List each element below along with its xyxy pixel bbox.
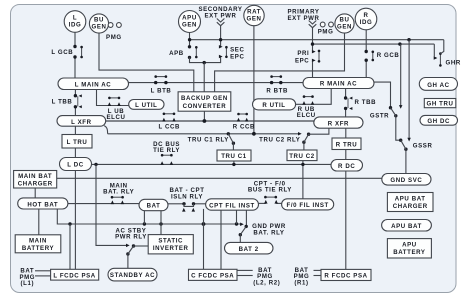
svg-text:F/0 FIL INST: F/0 FIL INST xyxy=(287,202,329,209)
svg-text:(L2, R2): (L2, R2) xyxy=(253,280,280,287)
svg-text:MAIN BAT: MAIN BAT xyxy=(18,173,52,180)
svg-text:R CCB: R CCB xyxy=(233,124,255,131)
svg-text:R MAIN AC: R MAIN AC xyxy=(320,81,357,88)
svg-text:APB: APB xyxy=(169,50,184,57)
svg-text:APU BAT: APU BAT xyxy=(391,223,422,230)
svg-text:R FCDC PSA: R FCDC PSA xyxy=(324,273,367,280)
svg-text:GEN: GEN xyxy=(91,24,106,31)
svg-text:BAT. RLY: BAT. RLY xyxy=(253,229,284,236)
svg-text:TRU C2: TRU C2 xyxy=(289,153,315,160)
svg-text:APU BAT: APU BAT xyxy=(395,195,426,202)
svg-text:CONVERTER: CONVERTER xyxy=(183,103,227,110)
svg-text:R TBB: R TBB xyxy=(354,99,376,106)
svg-text:GH AC: GH AC xyxy=(427,82,449,89)
svg-text:(R1): (R1) xyxy=(294,280,308,287)
svg-text:L TRU: L TRU xyxy=(67,139,88,146)
svg-text:TIE RLY: TIE RLY xyxy=(153,147,180,154)
svg-text:ISLN RLY: ISLN RLY xyxy=(171,193,203,200)
svg-text:INVERTER: INVERTER xyxy=(153,245,189,252)
svg-text:R XFR: R XFR xyxy=(328,120,349,127)
svg-text:EXT PWR: EXT PWR xyxy=(288,15,320,22)
svg-text:R TRU: R TRU xyxy=(336,142,358,149)
svg-text:BAT: BAT xyxy=(147,203,161,210)
svg-text:R DC: R DC xyxy=(338,163,355,170)
svg-text:MAIN: MAIN xyxy=(29,237,47,244)
svg-text:PWR RLY: PWR RLY xyxy=(115,234,147,241)
svg-text:BACKUP GEN: BACKUP GEN xyxy=(181,95,228,102)
svg-text:L CCB: L CCB xyxy=(158,124,180,131)
svg-text:R BTB: R BTB xyxy=(266,87,288,94)
svg-text:BATTERY: BATTERY xyxy=(22,245,54,252)
svg-text:PRI: PRI xyxy=(297,50,309,57)
svg-text:STANDBY AC: STANDBY AC xyxy=(110,272,155,279)
svg-text:PMG: PMG xyxy=(106,34,122,41)
svg-text:TRU C2 RLY: TRU C2 RLY xyxy=(259,136,300,143)
svg-text:GSTR: GSTR xyxy=(370,113,389,120)
svg-text:L GCB: L GCB xyxy=(51,49,73,56)
svg-text:TRU C1 RLY: TRU C1 RLY xyxy=(188,136,229,143)
svg-text:CHARGER: CHARGER xyxy=(18,180,53,187)
svg-text:C FCDC PSA: C FCDC PSA xyxy=(191,273,234,280)
svg-text:APU: APU xyxy=(182,15,197,22)
svg-text:BUS TIE RLY: BUS TIE RLY xyxy=(248,187,292,194)
svg-text:L BTB: L BTB xyxy=(151,87,172,94)
svg-text:EXT PWR: EXT PWR xyxy=(205,12,237,19)
svg-text:BAT. RLY: BAT. RLY xyxy=(103,188,134,195)
svg-text:BATTERY: BATTERY xyxy=(393,249,425,256)
svg-text:HOT BAT: HOT BAT xyxy=(27,201,58,208)
svg-text:PMG: PMG xyxy=(318,29,334,36)
svg-text:R UTIL: R UTIL xyxy=(262,102,285,109)
svg-text:TRU C1: TRU C1 xyxy=(221,153,247,160)
svg-text:IDG: IDG xyxy=(69,22,82,29)
svg-text:L FCDC PSA: L FCDC PSA xyxy=(53,272,95,279)
svg-text:BU: BU xyxy=(94,17,104,24)
svg-text:L MAIN AC: L MAIN AC xyxy=(75,81,112,88)
svg-text:STATIC: STATIC xyxy=(158,237,183,244)
svg-text:R GCB: R GCB xyxy=(377,52,400,59)
svg-text:ELCU: ELCU xyxy=(107,114,126,121)
svg-text:GSSR: GSSR xyxy=(413,142,433,149)
svg-text:GND SVC: GND SVC xyxy=(390,177,422,184)
svg-text:L XFR: L XFR xyxy=(71,119,92,126)
svg-text:APU: APU xyxy=(402,241,417,248)
svg-text:BU: BU xyxy=(339,17,349,24)
svg-text:GHR: GHR xyxy=(446,59,461,66)
svg-text:L: L xyxy=(73,15,77,22)
svg-text:GEN: GEN xyxy=(182,22,197,29)
svg-text:GEN: GEN xyxy=(337,24,352,31)
svg-text:L DC: L DC xyxy=(67,162,84,169)
svg-text:CPT FIL INST: CPT FIL INST xyxy=(209,202,255,209)
svg-text:GH DC: GH DC xyxy=(427,118,450,125)
svg-text:(L1): (L1) xyxy=(21,280,35,287)
svg-text:CHARGER: CHARGER xyxy=(393,203,428,210)
svg-text:GH TRU: GH TRU xyxy=(427,101,454,108)
svg-text:L TBB: L TBB xyxy=(52,99,73,106)
svg-text:L UTIL: L UTIL xyxy=(135,102,157,109)
svg-text:RAT: RAT xyxy=(247,9,261,16)
svg-text:EPC: EPC xyxy=(295,57,309,64)
svg-text:GEN: GEN xyxy=(246,16,261,23)
svg-text:ELCU: ELCU xyxy=(297,112,316,119)
svg-text:R: R xyxy=(363,12,368,19)
svg-text:BAT 2: BAT 2 xyxy=(239,246,259,253)
svg-text:EPC: EPC xyxy=(230,53,244,60)
svg-text:IDG: IDG xyxy=(360,19,373,26)
